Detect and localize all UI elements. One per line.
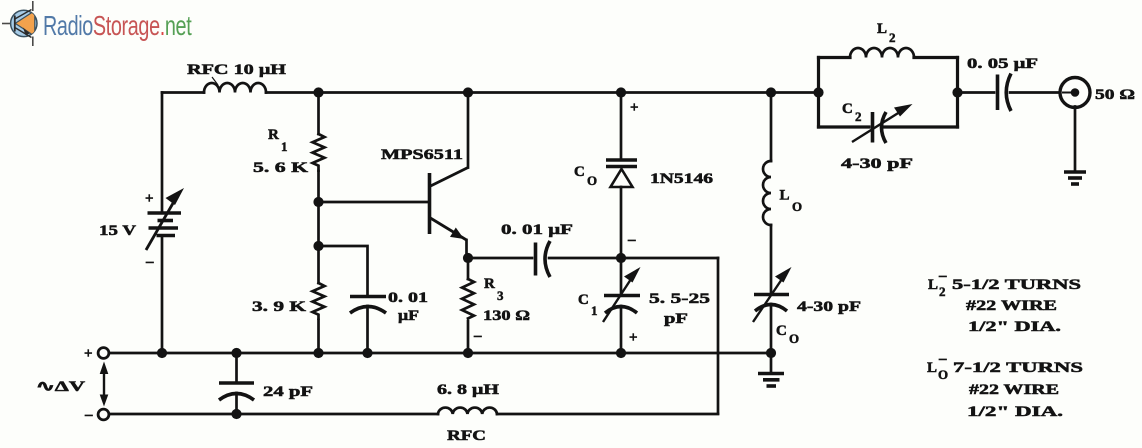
- svg-text:4-30 pF: 4-30 pF: [797, 299, 861, 315]
- node 24pF bottom: [231, 409, 241, 419]
- svg-text:–: –: [938, 351, 947, 367]
- svg-text:130 Ω: 130 Ω: [483, 308, 530, 324]
- svg-text:0. 05 μF: 0. 05 μF: [967, 56, 1038, 72]
- tank bottom wire left: [819, 125, 870, 128]
- label 6.8 uH: [437, 382, 499, 398]
- label C1: [578, 292, 598, 318]
- label battery plus: [145, 191, 154, 207]
- label uF: [398, 308, 419, 324]
- arrow deltaV: [100, 362, 109, 407]
- node LO top: [766, 87, 776, 97]
- capacitor 0.01uF bypass: [350, 297, 386, 314]
- label R3 minus: [473, 328, 482, 344]
- svg-text:C: C: [574, 164, 585, 180]
- svg-text:5. 5-25: 5. 5-25: [649, 291, 710, 307]
- wire mid rail: [110, 352, 772, 355]
- wire R1 bottom: [317, 171, 320, 202]
- node battery bottom: [157, 348, 167, 358]
- svg-text:L: L: [877, 21, 887, 37]
- wire emitter rail left: [468, 257, 532, 260]
- resistor R1: [313, 134, 325, 171]
- svg-text:R: R: [484, 276, 495, 292]
- node R3 bottom: [463, 348, 473, 358]
- tank bottom wire right: [884, 125, 958, 128]
- wire R3 bottom: [467, 321, 470, 353]
- svg-text:L: L: [928, 277, 938, 293]
- svg-text:1/2" DIA.: 1/2" DIA.: [967, 404, 1063, 420]
- svg-text:24 pF: 24 pF: [263, 384, 313, 400]
- wire R1 top stub: [317, 93, 320, 135]
- label battery minus: [145, 254, 154, 270]
- wire feedback vertical: [717, 258, 720, 414]
- node ground mid: [766, 348, 776, 358]
- wire base node down: [317, 202, 320, 246]
- wire left supply lower: [161, 237, 164, 353]
- wire bottom rail left: [110, 413, 439, 416]
- node 3.9K bottom: [313, 348, 323, 358]
- note L2 winding: [928, 268, 1081, 335]
- label 15 V: [99, 223, 136, 239]
- svg-text:6. 8 μH: 6. 8 μH: [437, 382, 499, 398]
- svg-text:R: R: [268, 127, 279, 143]
- tank top wire right: [914, 56, 958, 59]
- transistor Q1 MPS6511: [430, 168, 469, 241]
- terminal minus: [98, 409, 109, 420]
- svg-text:2: 2: [889, 30, 896, 45]
- varactor CO 1N5146: [606, 160, 637, 187]
- svg-text:C: C: [842, 101, 853, 117]
- svg-text:0. 01: 0. 01: [388, 290, 428, 306]
- svg-text:#22 WIRE: #22 WIRE: [969, 382, 1059, 398]
- wire bottom rail right: [497, 413, 718, 416]
- svg-text:L: L: [927, 360, 937, 376]
- wire 3.9K top: [317, 246, 320, 283]
- capacitor 24pF: [219, 353, 254, 414]
- svg-text:–: –: [938, 268, 947, 284]
- label deltaV: [36, 379, 85, 395]
- label 4-30 pF CO: [797, 299, 861, 315]
- label 3.9 K: [252, 299, 306, 315]
- wire emitter: [465, 240, 468, 258]
- svg-text:–: –: [627, 232, 636, 248]
- wire left supply upper: [161, 93, 164, 212]
- label 4-30 pF C2: [841, 156, 913, 172]
- svg-text:15 V: 15 V: [99, 223, 136, 239]
- label R3: [484, 276, 504, 303]
- wire varactor top: [620, 93, 623, 158]
- node C1 top: [616, 253, 626, 263]
- label CO tank: [776, 323, 799, 346]
- svg-text:5. 6 K: 5. 6 K: [253, 160, 308, 176]
- ground output: [1064, 172, 1086, 184]
- ground mid: [758, 353, 784, 386]
- node tank left: [813, 87, 823, 97]
- svg-text:O: O: [587, 173, 597, 188]
- label CO varactor: [574, 164, 597, 188]
- svg-text:+: +: [84, 346, 93, 362]
- tank right side: [956, 58, 959, 128]
- svg-text:3: 3: [497, 288, 504, 303]
- node bypass tap: [313, 241, 323, 251]
- wire varactor bottom: [620, 187, 623, 258]
- node 24pF top: [231, 348, 241, 358]
- svg-text:μF: μF: [398, 308, 419, 324]
- svg-text:4-30 pF: 4-30 pF: [841, 156, 913, 172]
- wire top rail left: [162, 91, 204, 94]
- svg-text:∿ΔV: ∿ΔV: [36, 379, 85, 395]
- label R1: [268, 127, 288, 154]
- label terminal plus: [84, 346, 93, 362]
- svg-text:1N5146: 1N5146: [650, 171, 714, 187]
- svg-text:pF: pF: [664, 311, 688, 327]
- svg-text:RFC 10 μH: RFC 10 μH: [187, 62, 286, 78]
- svg-text:–: –: [84, 407, 93, 423]
- svg-text:RadioStorage.net: RadioStorage.net: [43, 11, 192, 42]
- inductor RFC1 10uH: [204, 83, 266, 93]
- label 5.5-25: [649, 291, 710, 307]
- wire top rail: [266, 91, 819, 94]
- svg-text:O: O: [789, 331, 799, 346]
- capacitor 0.05uF: [998, 74, 1012, 112]
- label L2: [877, 21, 896, 45]
- svg-text:C: C: [578, 292, 589, 308]
- svg-text:+: +: [145, 191, 154, 207]
- svg-text:RFC: RFC: [447, 428, 486, 444]
- logo RadioStorage.net: [2, 1, 192, 46]
- svg-text:0. 01 μF: 0. 01 μF: [501, 222, 573, 238]
- label RFC 10 uH: [187, 62, 286, 78]
- svg-text:3. 9 K: 3. 9 K: [252, 299, 306, 315]
- label varactor minus: [627, 232, 636, 248]
- terminal plus: [98, 348, 109, 359]
- svg-text:5-1/2 TURNS: 5-1/2 TURNS: [952, 277, 1081, 293]
- label 1N5146: [650, 171, 714, 187]
- node R1 top: [313, 87, 323, 97]
- svg-text:+: +: [630, 100, 639, 116]
- svg-text:50 Ω: 50 Ω: [1095, 87, 1135, 103]
- label 0.01: [388, 290, 428, 306]
- capacitor CO 4-30pF variable: [753, 267, 792, 353]
- label varactor plus: [630, 100, 639, 116]
- node bypass bottom: [362, 348, 372, 358]
- wire tank to cap: [958, 91, 995, 94]
- wire R3 top: [467, 258, 470, 279]
- label 0.05 uF: [967, 56, 1038, 72]
- leader line: [212, 77, 218, 85]
- label terminal minus: [84, 407, 93, 423]
- svg-text:1: 1: [591, 303, 598, 318]
- svg-text:L: L: [780, 188, 790, 204]
- svg-text:2: 2: [939, 284, 946, 299]
- node base: [313, 197, 323, 207]
- label 130 ohm: [483, 308, 530, 324]
- svg-text:–: –: [145, 254, 154, 270]
- svg-text:1: 1: [281, 139, 288, 154]
- label C1 plus: [629, 330, 638, 346]
- tank top wire left: [819, 56, 851, 59]
- wire bypass tap right: [319, 246, 368, 294]
- svg-text:+: +: [629, 330, 638, 346]
- capacitor C1 variable 5.5-25pF: [603, 258, 641, 353]
- svg-text:O: O: [938, 367, 948, 382]
- battery 15V variable: [146, 188, 184, 250]
- inductor RFC2 6.8uH: [438, 408, 497, 414]
- svg-text:7-1/2 TURNS: 7-1/2 TURNS: [953, 360, 1083, 376]
- label 5.6 K: [253, 160, 308, 176]
- inductor LO: [763, 93, 771, 293]
- wire base: [319, 201, 429, 204]
- inductor L2: [850, 48, 914, 57]
- wire 3.9K bottom: [317, 320, 320, 353]
- label 0.01 uF coupling: [501, 222, 573, 238]
- wire connector to ground: [1074, 107, 1077, 171]
- label LO: [780, 188, 803, 215]
- svg-text:#22 WIRE: #22 WIRE: [966, 298, 1057, 314]
- node emitter: [463, 253, 473, 263]
- node C1 bottom: [616, 348, 626, 358]
- label 24 pF: [263, 384, 313, 400]
- label C2: [842, 101, 862, 124]
- label pF C1: [664, 311, 688, 327]
- svg-text:–: –: [473, 328, 482, 344]
- node varactor top: [616, 87, 626, 97]
- label RFC2: [447, 428, 486, 444]
- note LO winding: [927, 351, 1083, 420]
- wire emitter rail right: [549, 257, 718, 260]
- resistor 3.9K: [313, 283, 325, 319]
- tank left side: [817, 58, 820, 128]
- node collector: [463, 87, 473, 97]
- resistor R3: [462, 279, 474, 318]
- svg-text:MPS6511: MPS6511: [381, 147, 463, 163]
- wire bypass bottom: [366, 306, 369, 353]
- svg-text:1/2" DIA.: 1/2" DIA.: [968, 319, 1061, 335]
- wire cap to connector: [1010, 91, 1060, 94]
- wire collector: [467, 93, 470, 168]
- capacitor C2 variable 4-30pF: [852, 104, 913, 143]
- capacitor 0.01uF coupling: [536, 241, 551, 277]
- connector 50 ohm: [1060, 78, 1090, 108]
- svg-text:2: 2: [855, 109, 862, 124]
- svg-text:C: C: [776, 323, 787, 339]
- label 50 ohm: [1095, 87, 1135, 103]
- svg-text:O: O: [792, 199, 802, 214]
- node tank right: [952, 87, 962, 97]
- label MPS6511: [381, 147, 463, 163]
